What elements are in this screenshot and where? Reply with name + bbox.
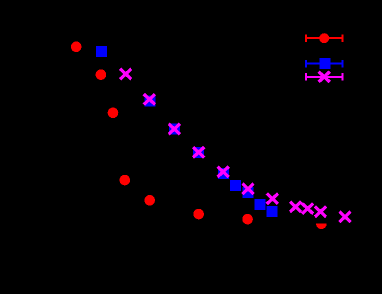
- blue square series, point 5: [218, 168, 229, 179]
- red circle series, point 1: [71, 42, 82, 53]
- red circle series, point 8 (top half hidden): [316, 219, 327, 230]
- magenta X series, point 8: [290, 202, 301, 212]
- red circle legend entry: errorbar sample: [306, 34, 342, 42]
- blue square series, point 2: [144, 96, 155, 107]
- red circle series, point 2: [96, 69, 107, 80]
- blue square series, point 1: [96, 46, 107, 57]
- red circle series, point 6: [193, 209, 204, 220]
- red circle series, point 4: [120, 175, 131, 186]
- magenta X legend marker: [319, 72, 330, 82]
- blue square series, point 6: [230, 180, 241, 191]
- magenta X series, point 2: [144, 94, 155, 104]
- magenta X series, point 10: [315, 207, 326, 217]
- magenta X series, point 11: [339, 212, 350, 222]
- black (hidden series) marker occluding red point 8: [313, 216, 330, 224]
- red circle series, point 7: [242, 214, 253, 225]
- blue square series, point 9: [267, 206, 278, 217]
- magenta X series, point 3: [169, 124, 180, 134]
- magenta X series, point 6: [242, 184, 253, 194]
- blue square legend marker: [319, 58, 330, 69]
- blue square series, point 8: [255, 199, 266, 210]
- blue square series, point 4: [193, 147, 204, 158]
- red circle series, point 5: [144, 195, 155, 206]
- red circle legend marker: [319, 33, 329, 43]
- blue square legend entry: errorbar sample: [306, 60, 342, 68]
- magenta X series, point 7: [267, 194, 278, 204]
- magenta X legend entry: errorbar sample: [306, 73, 342, 81]
- magenta X series, point 1: [120, 69, 131, 79]
- magenta X series, point 9: [302, 203, 313, 213]
- magenta X series, point 4: [193, 147, 204, 157]
- magenta X series, point 5: [218, 167, 229, 177]
- blue square series, point 3: [169, 123, 180, 134]
- red circle series, point 3: [108, 108, 119, 119]
- blue square series, point 7: [242, 187, 253, 198]
